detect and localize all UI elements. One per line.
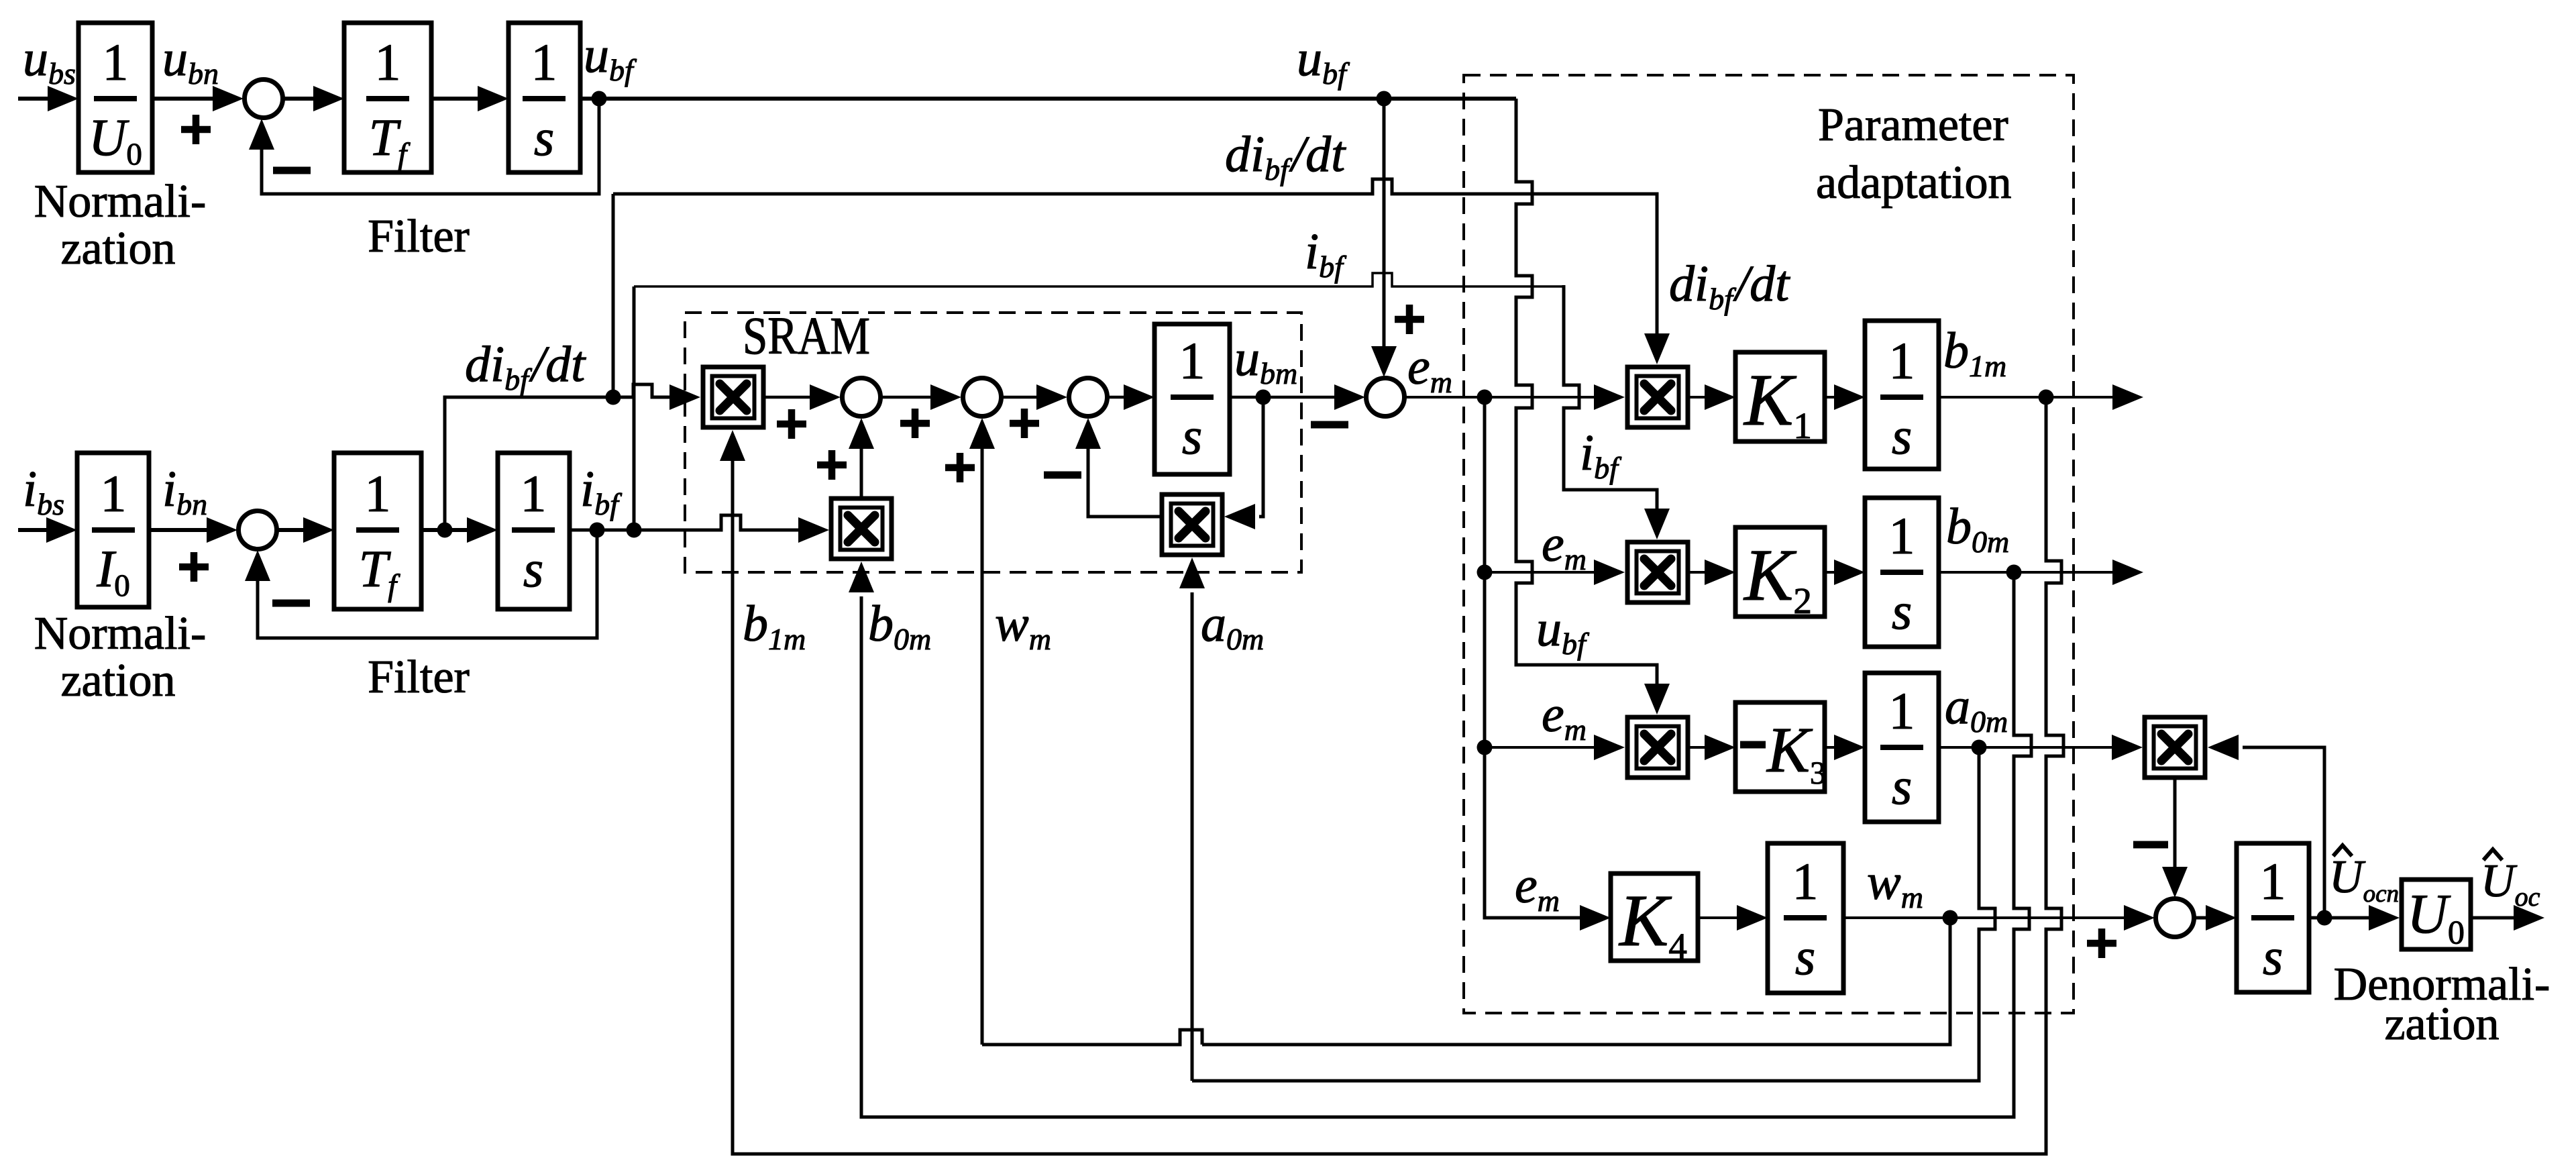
- summing junction SR3: [1069, 378, 1108, 417]
- wire di_bf/dt into SRAM multiplier 1 with hop: [613, 384, 669, 397]
- plus sign at sum S2 input: [179, 552, 209, 582]
- block 1/s top filter integrator: [508, 23, 580, 172]
- wire u_bf long run to parameter adaptation: [580, 97, 1516, 101]
- wire e_m into K2 multiplier: [1485, 571, 1598, 574]
- plus sign at sum S1 input: [181, 115, 211, 144]
- wire w_m bus down and feedback to SR2: [1202, 918, 1950, 1045]
- block 1/Tf lower filter gain: [334, 453, 421, 609]
- svg-text:s: s: [1892, 757, 1912, 815]
- plus sign M1 output: [777, 409, 806, 439]
- minus sign at sum S2 feedback input: [272, 600, 310, 607]
- svg-text:Filter: Filter: [368, 211, 470, 262]
- wire M4 to K1: [1688, 396, 1709, 399]
- wire S2 to 1/Tf lower: [278, 528, 307, 532]
- svg-text:/dt: /dt: [1733, 256, 1790, 312]
- wire M7 output down into final sum: [2173, 778, 2177, 867]
- node e_m bus row2 tap: [1477, 565, 1493, 580]
- wire a_0m feedback up into M3: [1191, 592, 1194, 1081]
- svg-text:1: 1: [531, 33, 557, 91]
- wire U_oc output arrow: [2471, 916, 2518, 920]
- multiplier M6 (e_m x u_bf): [1627, 717, 1688, 778]
- node di_bf/dt tap after 1/Tf: [437, 523, 453, 538]
- node U_ocn tap: [2317, 910, 2332, 926]
- wire di_bf/dt up to long run: [612, 194, 615, 397]
- plus sign SR2 to SR3: [1010, 409, 1039, 438]
- plus sign at SR1 bottom input: [817, 450, 847, 480]
- node e_m bus tap: [1477, 390, 1493, 405]
- svg-text:Parameter: Parameter: [1818, 99, 2008, 151]
- wire i_bf output run into SRAM multiplier 2: [570, 515, 798, 530]
- svg-text:1: 1: [1889, 682, 1915, 740]
- svg-text:s: s: [1892, 407, 1912, 465]
- minus sign at e_m sum u_bm input: [1311, 421, 1348, 429]
- plus sign SR1 to SR2: [900, 409, 930, 438]
- wire b_1m output arrow: [1939, 396, 2116, 399]
- wire SR3 to SRAM integrator: [1109, 396, 1128, 399]
- svg-text:s: s: [2263, 927, 2283, 986]
- wire b_1m bus down and feedback to M1: [733, 397, 2063, 1154]
- svg-text:Normali-: Normali-: [34, 176, 207, 227]
- wire M3 output to SR3 bottom: [1088, 422, 1161, 517]
- block K2: [1735, 527, 1825, 617]
- svg-text:1: 1: [103, 33, 129, 91]
- wire lower filter feedback loop: [258, 530, 597, 638]
- wire u_bf staircase down to K3 multiplier: [1516, 99, 1657, 684]
- block 1/s integrator row3: [1865, 673, 1939, 822]
- wire K1 to 1/s row1: [1825, 396, 1838, 399]
- wire K2 to 1/s row2: [1825, 571, 1838, 574]
- block -K3: [1735, 702, 1825, 792]
- multiplier M7 (a_0m x U_ocn): [2145, 717, 2205, 778]
- svg-text:1: 1: [365, 464, 391, 523]
- wire u_bm into e_m sum: [1230, 396, 1338, 399]
- node i_bf branch tap: [627, 523, 642, 538]
- svg-text:zation: zation: [60, 223, 175, 274]
- summing junction S1 (top filter): [245, 80, 283, 118]
- node di_bf/dt junction into SRAM: [606, 390, 621, 405]
- wire b_0m bus down and feedback to M2: [861, 572, 2031, 1117]
- multiplier M2 (i_bf x b_0m) in SRAM: [831, 498, 892, 559]
- minus sign at SR3 bottom input: [1044, 472, 1081, 479]
- node u_bf feedback tap: [592, 91, 607, 107]
- wire M2 output up into SR1: [860, 422, 863, 498]
- block 1/s lower filter integrator: [498, 453, 570, 609]
- wire K4 to 1/s row4: [1698, 916, 1741, 919]
- wire SR2 to SR3: [1003, 396, 1040, 399]
- block 1/U0 normalization gain: [78, 23, 152, 172]
- minus sign at sum S1 feedback input: [273, 167, 311, 174]
- wire w_m output into final sum: [1843, 916, 2128, 919]
- node e_m bus row3 tap: [1477, 740, 1493, 755]
- wire U_ocn to U0 block: [2309, 916, 2373, 920]
- block 1/I0 normalization gain (current): [77, 453, 149, 607]
- svg-text:adaptation: adaptation: [1816, 157, 2012, 209]
- wire SR1 to SR2: [882, 396, 934, 399]
- wire input u_bs arrow: [18, 97, 52, 101]
- wire u_bm tap down into M3 right side: [1259, 397, 1263, 517]
- block 1/s integrator row4: [1768, 843, 1843, 993]
- wire a_0m bus down and feedback to M3: [1192, 747, 1995, 1081]
- multiplier M5 (e_m x i_bf): [1627, 542, 1688, 602]
- summing junction SR1: [843, 378, 881, 417]
- wire 1/Tf to 1/s (top): [431, 97, 482, 101]
- svg-text:1: 1: [1792, 852, 1819, 910]
- node b_1m tap: [2039, 390, 2054, 405]
- wire M5 to K2: [1688, 571, 1709, 574]
- node u_bf branch to error sum: [1377, 91, 1392, 107]
- multiplier M4 (e_m x di_bf/dt): [1627, 367, 1688, 427]
- svg-text:1: 1: [521, 464, 547, 523]
- svg-text:Filter: Filter: [368, 651, 470, 703]
- wire u_bn to sum S1: [152, 97, 217, 101]
- block U0 denormalization: [2402, 880, 2471, 949]
- node w_m tap: [1943, 910, 1958, 926]
- wire u_bf down into e_m sum: [1383, 99, 1386, 346]
- svg-text:1: 1: [101, 464, 127, 523]
- svg-text:/dt: /dt: [529, 336, 586, 392]
- plus sign at e_m sum u_bf input: [1395, 305, 1424, 334]
- summing junction SR2: [963, 378, 1002, 417]
- node u_bm output tap: [1256, 390, 1271, 405]
- svg-text:1: 1: [1889, 507, 1915, 565]
- svg-text:zation: zation: [60, 655, 175, 706]
- wire S1 to 1/Tf: [284, 97, 317, 101]
- wire top filter feedback loop: [262, 99, 599, 194]
- dashed box SRAM: [685, 313, 1301, 572]
- wire a_0m output into output multiplier: [1939, 746, 2116, 749]
- block K4: [1611, 874, 1698, 961]
- node a_0m tap: [1972, 740, 1987, 755]
- svg-text:1: 1: [2260, 852, 2286, 910]
- wire i_bn to sum S2: [149, 528, 211, 532]
- wire input i_bs arrow: [18, 528, 50, 532]
- wire M6 to -K3: [1688, 746, 1709, 749]
- summing junction S3 error e_m: [1366, 378, 1405, 417]
- block 1/s final integrator: [2237, 843, 2309, 992]
- svg-text:s: s: [1795, 927, 1815, 986]
- wire b_0m output arrow: [1939, 571, 2116, 574]
- minus sign at final sum M7 input: [2133, 841, 2168, 849]
- block 1/s integrator row1: [1865, 321, 1939, 469]
- summing junction S2 (lower filter): [239, 511, 277, 549]
- summing junction S4 final: [2156, 899, 2194, 937]
- wire S4 to 1/s final: [2195, 916, 2210, 920]
- wire U_ocn feedback into M7 right side: [2243, 747, 2324, 918]
- svg-text:Normali-: Normali-: [34, 608, 207, 659]
- svg-text:zation: zation: [2384, 998, 2499, 1050]
- svg-text:s: s: [534, 108, 554, 166]
- wire w_m feedback up into SR2: [981, 422, 984, 1045]
- wire M1 to sum SR1: [763, 396, 814, 399]
- plus sign at final sum w_m input: [2087, 929, 2116, 958]
- svg-text:s: s: [1892, 582, 1912, 640]
- plus sign at SR2 bottom input: [945, 453, 975, 482]
- wire e_m bus down to K4 row: [1485, 397, 1580, 918]
- block 1/Tf top filter gain: [344, 23, 431, 172]
- svg-text:1: 1: [1889, 331, 1915, 390]
- node lower feedback tap: [590, 523, 605, 538]
- multiplier M3 (u_bm x a_0m) in SRAM: [1162, 494, 1222, 555]
- wire di_bf/dt long run with hop and drop to K1 multiplier: [613, 179, 1657, 333]
- wire -K3 to 1/s row3: [1825, 746, 1838, 749]
- wire i_bf long run with hop, drop and jog to K2 multiplier: [634, 273, 1565, 286]
- dashed box Parameter adaptation: [1464, 75, 2074, 1013]
- block K1: [1735, 352, 1825, 441]
- block 1/s SRAM integrator: [1155, 324, 1230, 474]
- node b_0m tap: [2006, 565, 2022, 580]
- svg-text:1: 1: [375, 33, 401, 91]
- wire di tap up and right to SRAM feed: [445, 397, 613, 530]
- svg-text:SRAM: SRAM: [743, 307, 870, 366]
- svg-text:s: s: [523, 539, 543, 598]
- wire 1/Tf to 1/s (lower) with di tap node: [421, 528, 471, 532]
- wire e_m to K1 multiplier: [1405, 396, 1598, 399]
- block 1/s integrator row2: [1865, 498, 1939, 647]
- svg-text:s: s: [1182, 407, 1202, 465]
- wire i_bf up to long run: [633, 286, 636, 530]
- multiplier M1 (di_bf/dt x b_1m) in SRAM: [703, 367, 763, 427]
- svg-text:1: 1: [1179, 331, 1205, 390]
- svg-text:/dt: /dt: [1289, 126, 1346, 182]
- wire e_m into K3 multiplier: [1485, 746, 1598, 749]
